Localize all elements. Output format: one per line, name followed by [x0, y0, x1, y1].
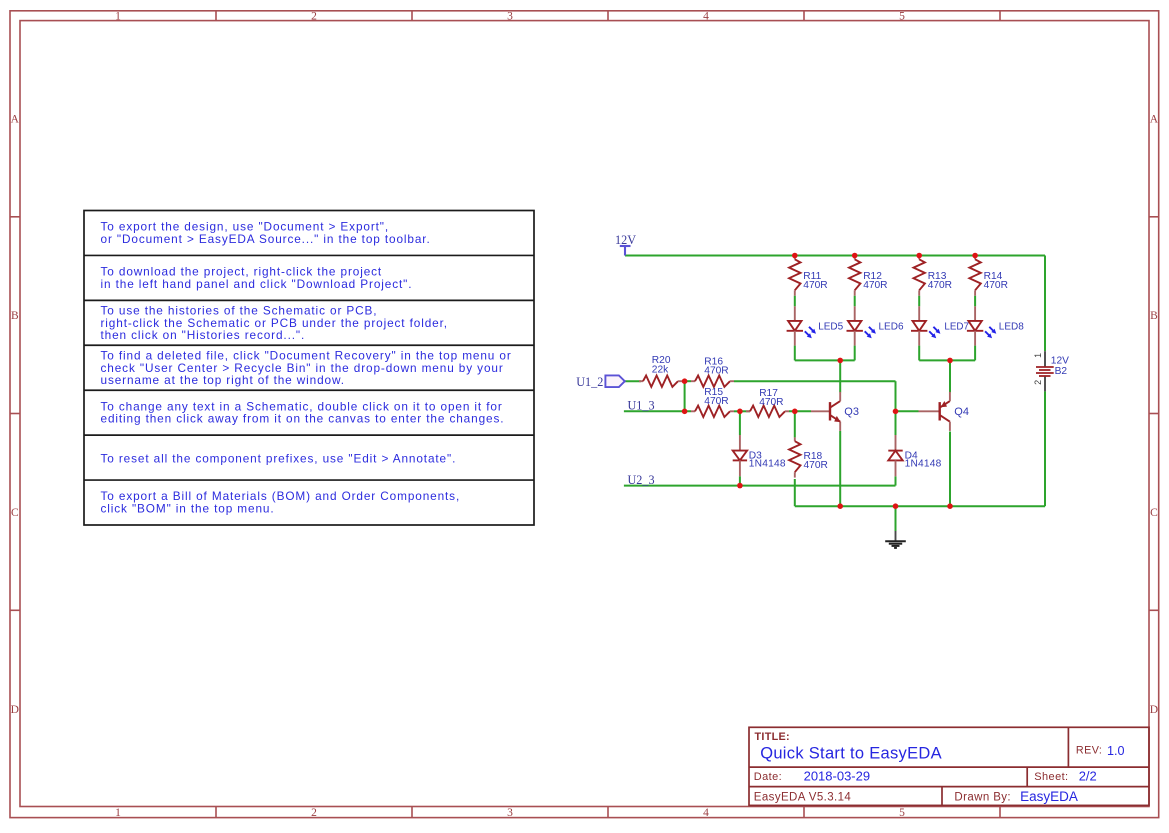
svg-text:2: 2: [1033, 380, 1043, 385]
svg-text:470R: 470R: [804, 460, 828, 471]
svg-text:U2_3: U2_3: [628, 473, 655, 487]
svg-text:3: 3: [507, 10, 513, 22]
svg-text:12V: 12V: [615, 233, 636, 247]
svg-text:username at the top right of t: username at the top right of the window.: [101, 373, 345, 387]
svg-text:C: C: [11, 507, 19, 519]
svg-text:EasyEDA V5.3.14: EasyEDA V5.3.14: [754, 792, 852, 804]
svg-text:22k: 22k: [652, 364, 669, 375]
svg-text:EasyEDA: EasyEDA: [1020, 789, 1078, 804]
svg-text:Date:: Date:: [754, 771, 782, 783]
svg-text:U1_3: U1_3: [628, 399, 655, 413]
svg-text:2/2: 2/2: [1079, 769, 1097, 784]
svg-text:470R: 470R: [984, 280, 1008, 291]
svg-text:in the left hand panel and cli: in the left hand panel and click "Downlo…: [101, 277, 413, 291]
svg-text:470R: 470R: [704, 396, 728, 407]
svg-text:5: 5: [899, 807, 905, 819]
svg-text:A: A: [1150, 113, 1159, 125]
svg-text:Sheet:: Sheet:: [1034, 771, 1068, 783]
svg-text:470R: 470R: [928, 280, 952, 291]
svg-text:470R: 470R: [759, 397, 783, 408]
svg-text:1: 1: [115, 10, 121, 22]
svg-text:1: 1: [1033, 353, 1043, 358]
svg-text:LED8: LED8: [999, 322, 1024, 333]
svg-text:editing then click away from i: editing then click away from it on the c…: [101, 412, 505, 426]
svg-text:3: 3: [507, 807, 513, 819]
svg-text:click "BOM" in the top menu.: click "BOM" in the top menu.: [101, 501, 275, 515]
svg-text:12V: 12V: [1051, 356, 1069, 367]
svg-text:To reset all the component pre: To reset all the component prefixes, use…: [101, 452, 457, 466]
svg-text:D: D: [1150, 704, 1158, 716]
svg-text:LED7: LED7: [944, 322, 969, 333]
svg-text:1: 1: [115, 807, 121, 819]
svg-text:C: C: [1150, 507, 1158, 519]
svg-text:B: B: [11, 310, 19, 322]
svg-text:1N4148: 1N4148: [905, 459, 942, 470]
svg-text:5: 5: [899, 10, 905, 22]
svg-text:D: D: [11, 704, 19, 716]
svg-text:U1_2: U1_2: [576, 375, 603, 389]
svg-text:B: B: [1150, 310, 1158, 322]
svg-text:470R: 470R: [863, 280, 887, 291]
svg-text:LED6: LED6: [879, 322, 904, 333]
svg-text:470R: 470R: [803, 280, 827, 291]
svg-text:LED5: LED5: [818, 322, 843, 333]
svg-text:1N4148: 1N4148: [749, 459, 786, 470]
svg-text:Q4: Q4: [954, 406, 969, 418]
svg-text:4: 4: [703, 10, 709, 22]
svg-text:B2: B2: [1055, 366, 1068, 377]
svg-text:Q3: Q3: [844, 406, 859, 418]
svg-text:TITLE:: TITLE:: [755, 731, 790, 743]
svg-text:REV:: REV:: [1076, 745, 1102, 757]
svg-text:2: 2: [311, 807, 317, 819]
svg-text:Quick Start to EasyEDA: Quick Start to EasyEDA: [760, 745, 942, 763]
svg-text:A: A: [11, 113, 20, 125]
svg-text:4: 4: [703, 807, 709, 819]
svg-text:or "Document > EasyEDA Source.: or "Document > EasyEDA Source..." in the…: [101, 232, 431, 246]
svg-text:then click on "Histories recor: then click on "Histories record...".: [101, 328, 306, 342]
svg-text:2: 2: [311, 10, 317, 22]
svg-text:470R: 470R: [704, 365, 728, 376]
svg-text:Drawn By:: Drawn By:: [954, 792, 1011, 804]
svg-text:1.0: 1.0: [1107, 744, 1125, 758]
svg-text:2018-03-29: 2018-03-29: [804, 769, 871, 784]
